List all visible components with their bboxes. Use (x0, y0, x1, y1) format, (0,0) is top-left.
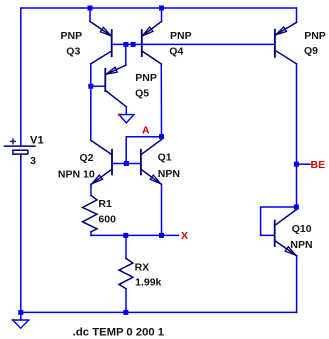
svg-text:Q1: Q1 (158, 152, 172, 164)
wire R1 bottom elbow (90, 232, 92, 236)
transistor Q4 (142, 21, 162, 64)
battery V1 (4, 139, 35, 158)
resistor RX (119, 258, 133, 288)
svg-text:BE: BE (311, 159, 326, 171)
junction top rail right (159, 6, 164, 11)
svg-text:PNP: PNP (170, 30, 192, 42)
wire Q1-Q2 base (112, 163, 141, 165)
junction node X at Q1 emitter (159, 233, 164, 238)
transistor Q10 (275, 210, 297, 256)
wire Q1 emitter vertical (161, 184, 163, 235)
svg-text:Q5: Q5 (135, 87, 149, 99)
junction bottom left (18, 310, 23, 315)
transistor Q9 (275, 22, 297, 64)
wire RX top stub (125, 235, 127, 258)
wire base bus Q3-Q4-Q9 (112, 43, 275, 45)
wire Q10 base loop (261, 207, 297, 235)
svg-text:NPN 10: NPN 10 (58, 169, 95, 181)
transistor Q2 (91, 140, 112, 184)
wire Q5 collector to ground (125, 107, 127, 115)
svg-text:.dc TEMP 0 200 1: .dc TEMP 0 200 1 (73, 327, 164, 339)
svg-text:V1: V1 (30, 135, 44, 147)
svg-text:PNP: PNP (304, 30, 326, 42)
wire Q3 collector to Q2 collector (90, 64, 92, 140)
wire RX bottom stub (125, 289, 127, 313)
junction node A (159, 134, 164, 139)
svg-text:Q10: Q10 (292, 223, 312, 235)
svg-text:Q9: Q9 (304, 45, 318, 57)
wire Q9 collector vertical (296, 64, 298, 210)
svg-text:NPN: NPN (158, 168, 180, 180)
wire top rail (21, 8, 297, 146)
svg-text:1.99k: 1.99k (135, 276, 161, 288)
transistor Q1 (141, 140, 162, 185)
svg-text:RX: RX (135, 262, 150, 274)
wire Q2 emitter to R1 (90, 184, 92, 195)
wire node A horizontal (126, 137, 161, 164)
resistor R1 (83, 195, 98, 231)
ground under Q5 (119, 115, 135, 123)
junction Q1 Q2 base (124, 161, 129, 166)
junction RX bottom (123, 310, 128, 315)
transistor Q3 (90, 21, 112, 64)
junction node X at RX (123, 233, 128, 238)
svg-text:NPN: NPN (290, 239, 312, 251)
svg-text:PNP: PNP (135, 72, 157, 84)
junction node BE (294, 162, 299, 167)
wire Q10 emitter vertical (296, 256, 298, 313)
svg-text:A: A (142, 124, 150, 136)
junction top rail left (88, 6, 93, 11)
svg-text:600: 600 (98, 214, 116, 226)
svg-text:3: 3 (30, 155, 36, 167)
junction base bus 2 (131, 42, 136, 47)
svg-text:R1: R1 (98, 198, 112, 210)
ground bottom left (12, 320, 29, 328)
svg-text:Q3: Q3 (66, 45, 80, 57)
wire Q3 emitter stub (89, 8, 91, 21)
wire bottom rail (21, 311, 297, 313)
wire Q9 emitter stub (296, 8, 298, 22)
svg-text:X: X (181, 230, 188, 242)
wire Q4 emitter stub (161, 8, 163, 21)
transistor Q5 (105, 65, 126, 107)
junction Q10 collector (294, 205, 299, 210)
junction Q5 base tap (88, 84, 93, 89)
wire Q5 emitter stub (125, 44, 127, 65)
wire Q4 collector to node A (160, 64, 162, 140)
junction base bus 1 (123, 42, 128, 47)
wire left rail lower (20, 154, 22, 320)
wire node BE stub (297, 163, 311, 165)
svg-text:PNP: PNP (61, 30, 83, 42)
wire Q5 base tap (91, 85, 106, 87)
svg-text:Q4: Q4 (169, 45, 183, 57)
wire node X horizontal (91, 234, 179, 236)
svg-text:Q2: Q2 (80, 152, 94, 164)
